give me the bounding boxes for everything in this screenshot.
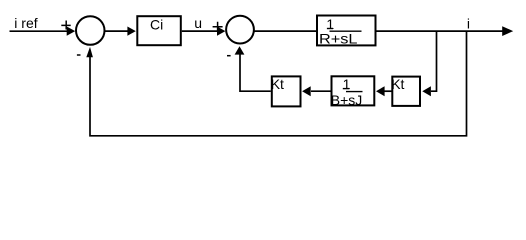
fraction bar B+sJ [346,91,363,93]
wire Kt right to B+sJ block [385,90,393,92]
wire S2 to plant block [254,30,317,32]
wire S1 to Ci [105,30,129,32]
svg-text:R+sL: R+sL [319,30,358,46]
wire input i_ref [10,30,69,32]
arrowhead into B+sJ block [376,86,385,96]
arrowhead up into S2 [235,46,245,54]
svg-text:u: u [194,15,202,31]
svg-text:Ci: Ci [150,16,163,32]
gain block Kt left [272,76,301,106]
svg-text:i ref: i ref [14,15,37,31]
arrowhead into summing junction S1 [67,27,76,36]
wire Kt left to S2 [240,54,271,91]
arrowhead into Ci [127,27,135,36]
controller block Ci [137,16,181,45]
arrowhead into Kt right [422,86,431,96]
wire outer feedback loop [90,31,467,136]
arrowhead into Kt left [302,86,311,96]
plus sign at S1 input [61,21,70,30]
wire B+sJ to Kt left [311,90,331,92]
wire junction drop to inner feedback [431,31,437,91]
svg-text:Kt: Kt [271,76,284,92]
svg-text:i: i [467,16,470,32]
mechanical block 1/(B+sJ) [332,76,375,105]
minus sign at S1 feedback input [77,54,81,56]
summing junction S1 [76,16,105,45]
plant block 1/(R+sL) [317,16,376,46]
wire Ci to S2 [182,30,218,32]
arrowhead up into S1 [86,47,93,57]
minus sign at S2 feedback input [227,55,231,57]
svg-text:B+sJ: B+sJ [331,92,363,108]
svg-text:Kt: Kt [391,76,404,92]
svg-text:1: 1 [343,76,351,92]
arrowhead into summing junction S2 [217,27,225,36]
arrowhead output [502,26,513,36]
wire output [377,30,504,32]
fraction bar R+sL [330,30,362,32]
summing junction S2 [226,16,254,44]
plus sign at S2 input [213,22,223,32]
gain block Kt right [392,77,420,106]
